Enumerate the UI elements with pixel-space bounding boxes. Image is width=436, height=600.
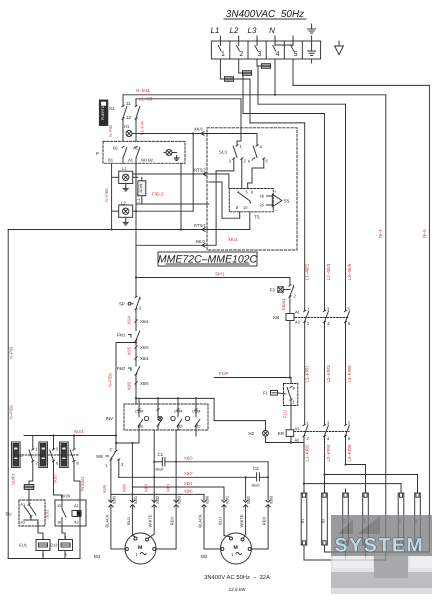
switch S1 pole 1: [122, 105, 124, 107]
fuse on L2: [239, 72, 243, 74]
KB contact pole 3: [344, 310, 346, 312]
svg-text:12: 12: [126, 115, 131, 120]
svg-text:EU1: EU1: [19, 543, 28, 548]
M1 leads: [110, 505, 112, 549]
safety unit SU dashed box: [19, 500, 45, 526]
svg-text:L1–F/A: L1–F/A: [140, 121, 145, 135]
TS internal blade: [239, 193, 251, 202]
svg-text:A1: A1: [133, 146, 139, 151]
wire SP/1 bus: [136, 277, 290, 279]
svg-text:X6/9: X6/9: [102, 484, 107, 493]
connector X8/4: [135, 357, 137, 359]
switch S1 pole 2: [135, 105, 137, 107]
svg-text:N–P/B1: N–P/B1: [108, 372, 113, 387]
svg-text:L3–KR/5: L3–KR/5: [347, 365, 352, 383]
svg-text:TH20: TH20: [60, 494, 71, 499]
svg-text:BLU: BLU: [126, 517, 131, 525]
svg-text:2: 2: [307, 321, 310, 326]
wire TH20 to EU2: [61, 526, 63, 533]
connector X8/5: [135, 382, 137, 384]
svg-text:PUERTA: PUERTA: [101, 105, 105, 120]
svg-text:6 *: 6 *: [248, 159, 253, 164]
svg-text:F3: F3: [270, 288, 276, 293]
svg-text:M1: M1: [94, 554, 101, 559]
connector break X8/1 M1: [131, 487, 133, 502]
svg-text:1: 1: [221, 51, 225, 58]
terminal 6 lead: [311, 36, 313, 46]
svg-text:X8/1: X8/1: [122, 483, 127, 492]
relay P1 contact box dashed: [103, 141, 185, 163]
svg-text:A2: A2: [74, 521, 79, 525]
svg-text:6: 6: [348, 321, 351, 326]
svg-text:5: 5: [294, 51, 298, 58]
svg-text:M: M: [234, 545, 238, 551]
svg-text:X8/3: X8/3: [177, 495, 182, 504]
svg-text:N–4: N–4: [378, 229, 383, 238]
svg-text:A1: A1: [295, 426, 301, 431]
svg-text:1: 1: [136, 552, 139, 557]
wire N-F/B1 vertical: [111, 163, 113, 229]
svg-text:SW: SW: [96, 454, 104, 459]
INV extra circles: [144, 416, 148, 420]
svg-text:26: 26: [260, 194, 265, 199]
svg-text:SU: SU: [5, 512, 11, 517]
svg-text:15: 15: [57, 504, 61, 508]
svg-text:L3: L3: [248, 26, 257, 35]
svg-text:8: 8: [77, 461, 80, 466]
svg-text:25: 25: [260, 203, 265, 208]
svg-text:KR: KR: [278, 431, 284, 436]
wire BK/1: [138, 133, 257, 135]
svg-text:L1: L1: [122, 166, 127, 171]
svg-text:5: 5: [348, 421, 351, 426]
wire heater feed 3: [346, 464, 366, 466]
wire N-4 bottom: [366, 559, 386, 561]
svg-text:3: 3: [139, 306, 142, 311]
KR linkage dashed: [294, 431, 349, 433]
svg-text:L2–40/3: L2–40/3: [326, 263, 331, 280]
svg-text:2: 2: [239, 51, 243, 58]
svg-text:6: 6: [251, 190, 254, 195]
svg-text:2: 2: [110, 447, 113, 452]
svg-text:R2: R2: [322, 519, 326, 523]
P1 contact blades: [122, 146, 124, 148]
svg-text:RED: RED: [170, 517, 175, 526]
svg-text:F1/1: F1/1: [283, 409, 288, 418]
svg-text:XK/2: XK/2: [228, 237, 238, 242]
svg-text:1: 1: [307, 307, 310, 312]
wire S1 pole1 top: [122, 95, 124, 106]
earth terminal cell: [311, 45, 313, 51]
svg-text:12,6 kW: 12,6 kW: [229, 587, 247, 592]
wire X8/6 bus: [111, 493, 204, 495]
heating element R1: [301, 493, 307, 545]
svg-text:F1: F1: [263, 391, 269, 396]
svg-text:F1/P: F1/P: [219, 371, 228, 376]
svg-text:1: 1: [36, 447, 39, 452]
svg-text:6: 6: [348, 436, 351, 441]
svg-text:L1–KR/2: L1–KR/2: [304, 444, 309, 462]
connector break X8/6 M1: [110, 494, 112, 502]
wire RTS/1 left border: [8, 229, 250, 231]
svg-text:INV: INV: [106, 416, 113, 421]
svg-text:SU/P1: SU/P1: [11, 472, 16, 484]
KB linkage dashed: [295, 317, 349, 319]
svg-text:XK/1: XK/1: [194, 127, 204, 132]
switch group3: [73, 434, 75, 436]
svg-text:X8/6: X8/6: [112, 495, 117, 504]
svg-text:3: 3: [327, 307, 330, 312]
svg-text:16uF: 16uF: [251, 484, 260, 488]
svg-text:5: 5: [56, 447, 59, 452]
svg-text:L2: L2: [230, 26, 239, 35]
terminal 1 lead: [219, 36, 221, 46]
wire heater feed 2: [325, 474, 418, 476]
svg-text:RTS/1: RTS/1: [194, 223, 206, 228]
terminal 5 lead: [292, 36, 294, 46]
svg-text:SP/1: SP/1: [215, 272, 225, 277]
svg-text:TS: TS: [254, 215, 260, 220]
wire SC1-3 loop: [233, 159, 235, 171]
connector break X8/2 M2: [243, 500, 247, 502]
svg-text:BLU: BLU: [217, 517, 222, 525]
wire L1-5/9 horizontal: [136, 98, 241, 100]
protective earth symbol: [338, 41, 340, 46]
svg-text:3N400VAC 50Hz: 3N400VAC 50Hz: [226, 9, 304, 20]
svg-text:M2: M2: [201, 554, 208, 559]
connector X6/5: [135, 346, 137, 348]
wire L1-F/A1 vertical: [135, 163, 137, 212]
svg-text:P: P: [96, 151, 99, 156]
svg-text:11: 11: [126, 101, 131, 106]
svg-text:L3–40/5: L3–40/5: [347, 263, 352, 280]
speed sensor SS: [272, 194, 282, 207]
wire L1 from terminal 1: [219, 59, 221, 79]
fuse on L3: [257, 65, 262, 67]
terminal 4 lead: [274, 36, 276, 46]
svg-text:L2–KR/4: L2–KR/4: [326, 444, 331, 462]
svg-text:X8/2: X8/2: [246, 495, 251, 504]
svg-text:P: P: [293, 386, 296, 391]
svg-text:A2: A2: [295, 320, 301, 325]
svg-text:F/B–2: F/B–2: [152, 192, 164, 197]
svg-text:X6/5: X6/5: [140, 345, 149, 350]
svg-text:X8/3: X8/3: [166, 483, 171, 492]
M2 leads: [203, 505, 205, 549]
svg-text:FM2: FM2: [117, 366, 126, 371]
svg-text:2: 2: [294, 294, 297, 299]
KB contact pole 1: [304, 310, 306, 312]
svg-text:SU/2: SU/2: [53, 474, 58, 484]
svg-text:A1: A1: [74, 504, 79, 508]
svg-text:C1: C1: [158, 452, 164, 457]
heating element R5: [398, 493, 404, 545]
svg-text:10: 10: [243, 205, 248, 210]
wire L1-40/1 vertical: [304, 123, 306, 311]
svg-text:N–P/B: N–P/B: [8, 347, 13, 359]
wire L1 drop: [249, 79, 251, 123]
svg-text:1: 1: [139, 296, 142, 301]
wire S1 pole2 top: [135, 99, 137, 106]
ground under lamp L1: [125, 184, 127, 187]
selector INV dashed box: [124, 404, 208, 430]
wire L2 drop: [242, 73, 244, 114]
svg-text:WHITE: WHITE: [148, 514, 153, 527]
wire N-4 vertical: [385, 95, 387, 557]
svg-text:L2–KR/3: L2–KR/3: [326, 365, 331, 383]
svg-text:1: 1: [293, 400, 296, 405]
svg-text:BK/2: BK/2: [196, 239, 206, 244]
wire L1 to SC1: [240, 99, 242, 141]
fuse F1 dashed box: [284, 384, 298, 406]
fuse before SU: [29, 480, 33, 482]
door label box: [99, 100, 107, 126]
svg-text:SP: SP: [119, 302, 125, 307]
svg-text:B1: B1: [113, 146, 119, 151]
svg-text:X8/3: X8/3: [269, 495, 274, 504]
wire X8/2 bus: [153, 430, 155, 503]
connector break X8/2 M1: [152, 500, 156, 502]
wire SU/1 bus: [24, 435, 116, 437]
svg-text:X6/5: X6/5: [127, 346, 132, 355]
connector break X8/3 M1: [174, 500, 178, 502]
svg-text:X8/4: X8/4: [140, 356, 149, 361]
connector break X8/1 M2: [222, 500, 226, 502]
svg-text:NO B2: NO B2: [141, 158, 154, 163]
switch SW: [115, 436, 117, 451]
heating element R4: [363, 493, 369, 545]
svg-text:16uF: 16uF: [155, 468, 164, 472]
svg-text:C2: C2: [253, 466, 259, 471]
svg-text:1: 1: [307, 421, 310, 426]
model label MME72C-MME102C: [158, 252, 257, 266]
wire L3-40/5 vertical: [345, 104, 347, 310]
svg-text:KB/A1: KB/A1: [281, 297, 286, 310]
wire earth drop: [311, 59, 313, 63]
ground symbol above terminal 6: [311, 24, 313, 29]
INV feed drops: [157, 398, 159, 404]
interference filter SCHB: [138, 181, 146, 196]
svg-text:RTS/2: RTS/2: [194, 168, 206, 173]
svg-text:4: 4: [327, 321, 330, 326]
svg-text:4: 4: [276, 51, 280, 58]
svg-text:L1: L1: [211, 26, 220, 35]
ground in P1 box: [176, 156, 178, 158]
svg-text:N–5: N–5: [422, 229, 427, 238]
svg-text:N–F/B1: N–F/B1: [104, 187, 109, 202]
svg-text:R1: R1: [301, 519, 305, 523]
svg-text:X8/2: X8/2: [155, 495, 160, 504]
svg-text:B1: B1: [108, 158, 114, 163]
wire L3 from terminal 3: [256, 59, 258, 66]
svg-text:L3–KR/6: L3–KR/6: [347, 444, 352, 462]
svg-text:EU2: EU2: [50, 543, 59, 548]
svg-text:2: 2: [307, 436, 310, 441]
svg-text:N–F/B: N–F/B: [108, 125, 113, 137]
wire bottom left bus: [8, 558, 80, 560]
KR contact pole 1: [303, 424, 305, 426]
KB contact pole 2: [323, 310, 325, 312]
svg-text:BLACK: BLACK: [104, 514, 109, 527]
svg-text:5: 5: [266, 159, 269, 164]
fuse on L1: [220, 78, 224, 80]
svg-text:P2: P2: [21, 521, 26, 525]
svg-text:BLACK: BLACK: [197, 514, 202, 527]
wire L3 drop: [257, 66, 259, 104]
motor M2: [221, 533, 252, 564]
wire F1/P: [214, 377, 291, 379]
svg-text:5: 5: [348, 307, 351, 312]
KR contact pole 3: [344, 424, 346, 426]
wire N from terminal 4: [274, 59, 276, 95]
machine boundary XK dashed box: [207, 128, 297, 250]
INV pole 2: [157, 404, 159, 409]
connector X6/4: [135, 320, 137, 322]
heater bottom bus 2: [324, 550, 326, 553]
svg-text:SYSTEM: SYSTEM: [335, 535, 425, 557]
wire heater feed 1: [304, 483, 401, 485]
wire X8/3 bus: [175, 430, 177, 503]
svg-text:TH20/A1: TH20/A1: [80, 475, 85, 492]
svg-text:SU: SU: [18, 454, 24, 458]
svg-text:3: 3: [258, 51, 262, 58]
ground under lamp L2: [125, 217, 127, 220]
panel switch group 2 label box: [39, 442, 48, 468]
svg-text:RED: RED: [262, 517, 267, 526]
svg-text:FM1: FM1: [117, 333, 126, 338]
left border wire N-P/B: [7, 230, 9, 559]
svg-text:X8/1: X8/1: [133, 495, 138, 504]
svg-text:SU/1: SU/1: [74, 429, 84, 434]
svg-text:N–P/B1: N–P/B1: [8, 404, 13, 419]
switch group2: [52, 434, 54, 436]
switch SC1 pole 2: [256, 134, 258, 146]
svg-text:S1: S1: [109, 106, 115, 111]
svg-text:X8/6: X8/6: [205, 495, 210, 504]
svg-text:L1–40/1: L1–40/1: [304, 263, 309, 280]
svg-text:A1: A1: [295, 310, 301, 315]
svg-text:SCHB: SCHB: [139, 184, 143, 193]
KR contact pole 2: [323, 424, 325, 426]
terminal 2 lead: [238, 36, 240, 46]
svg-text:X8/2: X8/2: [144, 483, 149, 492]
svg-text:H2: H2: [248, 431, 254, 436]
svg-text:3: 3: [327, 421, 330, 426]
svg-text:4: 4: [260, 144, 263, 149]
wire branch to SU bus: [135, 341, 137, 343]
wire N-5 vertical: [428, 85, 430, 552]
svg-text:X8/1: X8/1: [184, 481, 193, 486]
svg-text:SU/2: SU/2: [45, 509, 50, 519]
wire chain vertical: [135, 245, 137, 296]
svg-text:+: +: [275, 190, 278, 194]
svg-text:5: 5: [246, 190, 249, 195]
svg-text:16: 16: [57, 521, 61, 525]
wire F3 drop: [289, 278, 291, 286]
svg-text:1: 1: [105, 463, 108, 468]
svg-text:2: 2: [244, 159, 247, 164]
svg-text:X6/4: X6/4: [127, 315, 132, 324]
wire SC1-2 to TS4: [241, 159, 243, 189]
svg-text:X8/3: X8/3: [184, 456, 193, 461]
svg-text:SC1: SC1: [219, 150, 228, 155]
panel switch group 3 label box: [60, 442, 69, 468]
connector break X8/3 M2: [266, 500, 270, 502]
svg-text:KB: KB: [273, 315, 279, 320]
group linkage dashed: [22, 454, 78, 456]
wire L2-40/3 vertical: [324, 114, 326, 311]
svg-text:A1: A1: [128, 158, 134, 163]
svg-text:A2: A2: [295, 438, 301, 443]
svg-text:X8/2: X8/2: [184, 471, 193, 476]
svg-text:H1: H1: [124, 124, 130, 129]
svg-text:3N400V AC 50Hz – 32A: 3N400V AC 50Hz – 32A: [204, 574, 270, 581]
svg-text:1: 1: [42, 536, 44, 540]
wire L2 from terminal 2: [238, 59, 240, 73]
wire H2 branch: [213, 398, 215, 420]
svg-text:1: 1: [65, 536, 67, 540]
svg-text:8: 8: [236, 205, 239, 210]
svg-text:M: M: [138, 545, 142, 551]
svg-text:X8/5: X8/5: [140, 381, 149, 386]
svg-text:SS: SS: [284, 199, 290, 204]
svg-text:1: 1: [231, 552, 234, 557]
svg-text:WHITE: WHITE: [239, 514, 244, 527]
svg-text:N–5/11: N–5/11: [136, 88, 150, 93]
wire SCHB down: [141, 196, 143, 204]
motor M1: [125, 533, 156, 564]
watermark SYSTEM logo: [331, 515, 432, 594]
terminal block X1: [211, 41, 320, 59]
bridge terminal 4-5: [275, 44, 293, 46]
svg-text:1: 1: [240, 144, 243, 149]
svg-text:X8/6: X8/6: [184, 489, 193, 494]
svg-text:–: –: [275, 209, 278, 213]
svg-text:3: 3: [229, 159, 232, 164]
connector break X8/6 M2: [202, 500, 206, 502]
terminal 3 lead: [256, 36, 258, 46]
svg-text:2: 2: [36, 461, 39, 466]
lamp inside P1 box: [166, 150, 172, 156]
svg-text:4: 4: [327, 436, 330, 441]
svg-text:L1–KR/1: L1–KR/1: [304, 365, 309, 383]
svg-text:N: N: [269, 26, 275, 35]
switch group1: [32, 436, 34, 450]
wire N horizontal: [123, 94, 386, 96]
wire from terminal 5: [292, 59, 294, 85]
wire SC1-5 to TS5: [263, 159, 265, 169]
svg-text:6: 6: [56, 461, 59, 466]
svg-text:X8/5: X8/5: [127, 381, 132, 390]
svg-text:X8/1: X8/1: [225, 495, 230, 504]
svg-text:3: 3: [121, 462, 124, 467]
heating element R6: [415, 493, 421, 545]
heater bottom bus 1: [303, 550, 305, 561]
heating element R3: [343, 493, 349, 545]
timer TS dashed box: [229, 189, 273, 212]
panel switch group 1 label box: [12, 442, 21, 468]
wire INV feed bus: [135, 397, 137, 399]
heating element R2: [322, 493, 328, 545]
wire BK/2: [136, 244, 216, 246]
wire SU to EU1: [37, 526, 39, 533]
wire RTS/2: [133, 173, 229, 175]
wire H2 KR bottom: [265, 436, 267, 442]
wire X8/1 bus: [131, 443, 133, 487]
wire loop2 to TS8: [209, 181, 222, 183]
svg-text:X6/4: X6/4: [140, 319, 149, 324]
